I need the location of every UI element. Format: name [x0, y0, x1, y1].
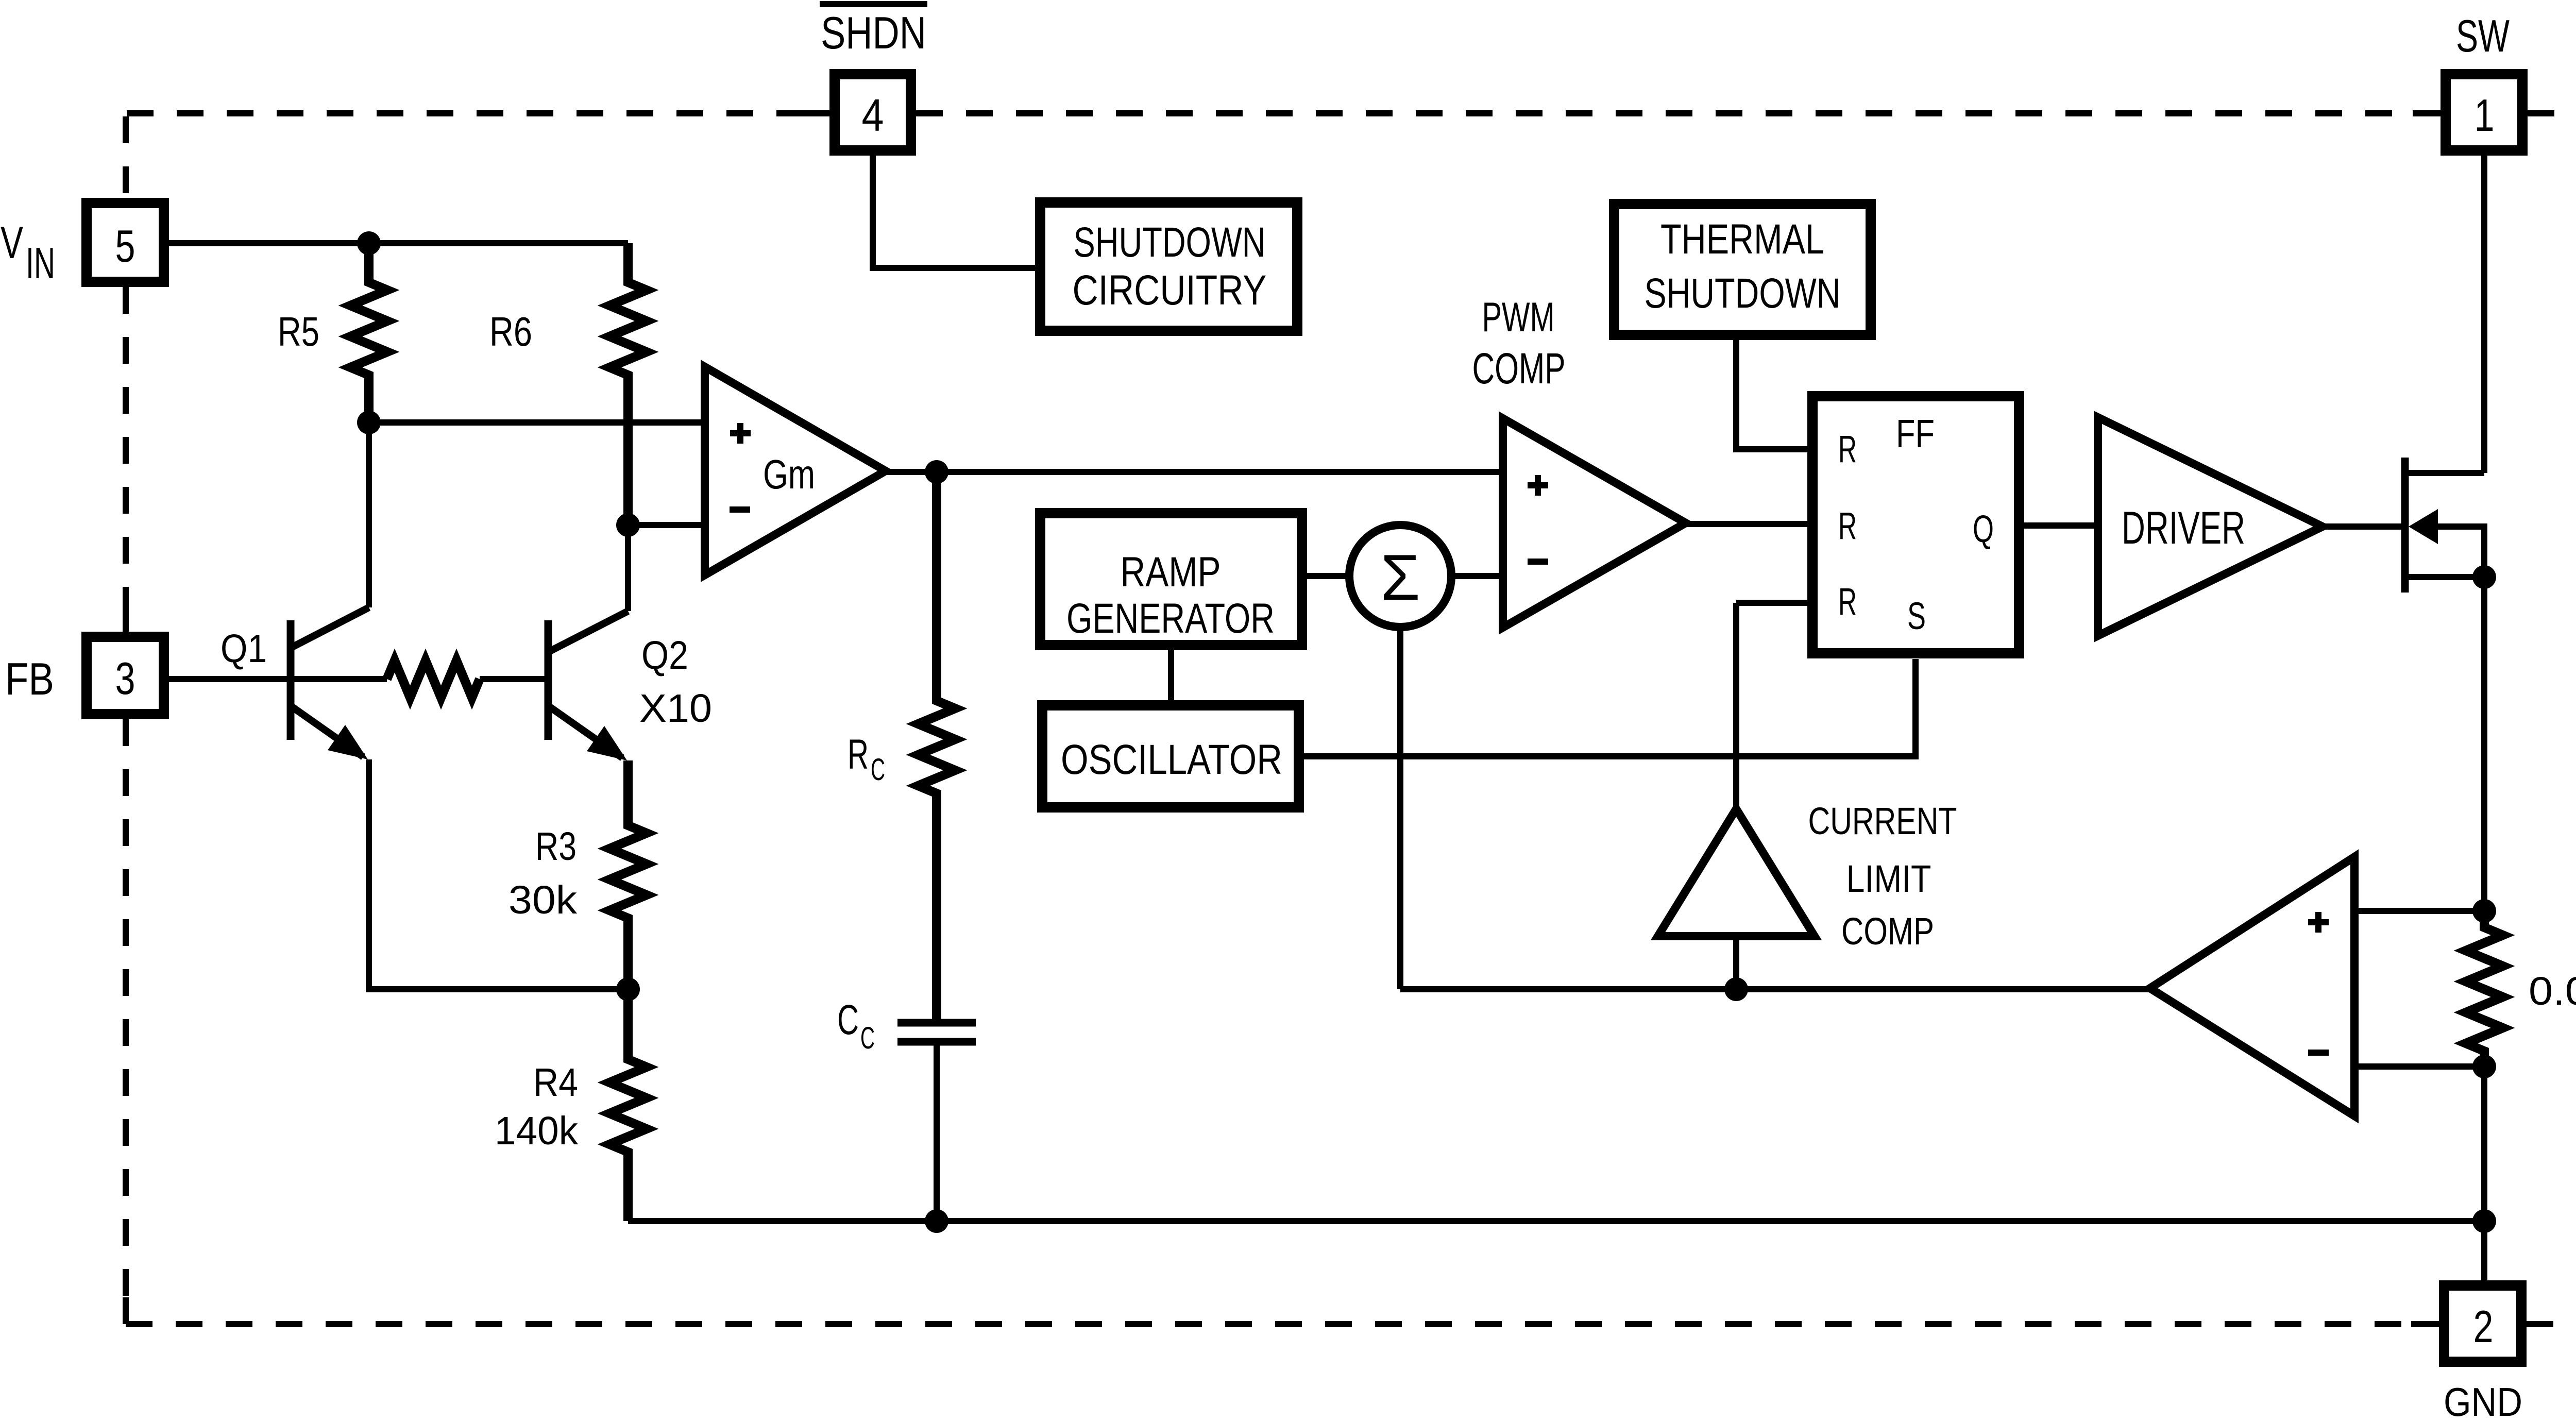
- svg-text:CIRCUITRY: CIRCUITRY: [1073, 267, 1267, 314]
- svg-text:C: C: [860, 1021, 875, 1055]
- DRIVER triangle: [2098, 417, 2323, 636]
- svg-text:LIMIT: LIMIT: [1846, 857, 1931, 900]
- wire pin5 to node A: [164, 240, 369, 246]
- wire MOSFET source down to sense resistor: [2481, 577, 2487, 911]
- svg-text:R: R: [1838, 504, 1857, 547]
- wire node B to Gm + input: [369, 419, 705, 426]
- resistor between Q1 and Q2 bases: [387, 661, 480, 698]
- pin 5 (VIN) box: [87, 203, 164, 282]
- svg-text:SHDN: SHDN: [821, 7, 926, 58]
- wire FB pin to Q1 base: [164, 676, 387, 682]
- node I junction dot (sense resistor top): [2472, 899, 2496, 923]
- svg-text:Gm: Gm: [763, 451, 815, 497]
- svg-text:SHUTDOWN: SHUTDOWN: [1074, 219, 1266, 266]
- svg-text:140k: 140k: [495, 1109, 578, 1153]
- wire PWM comp output to FF R middle: [1686, 521, 1807, 527]
- node G junction dot: [1724, 977, 1748, 1001]
- wire sense resistor to ground bus: [2481, 1067, 2487, 1221]
- svg-text:IN: IN: [26, 239, 55, 288]
- PWM plus sign: [1528, 475, 1548, 496]
- flip-flop FF box: [1812, 396, 2019, 653]
- resistor RC: [918, 472, 955, 1023]
- op-amp Gm triangle: [705, 367, 886, 575]
- svg-text:3: 3: [115, 653, 135, 704]
- wire summer down to current sense bus: [1397, 627, 1403, 989]
- svg-text:CURRENT: CURRENT: [1808, 800, 1957, 842]
- node A junction dot: [357, 231, 381, 255]
- IC boundary dashed border (top): [127, 110, 2576, 116]
- bottom ground bus wire: [628, 1218, 2484, 1224]
- svg-text:COMP: COMP: [1472, 344, 1566, 393]
- svg-text:R: R: [1838, 428, 1857, 470]
- svg-text:4: 4: [862, 90, 884, 141]
- wire node C down to Q2 collector: [625, 525, 631, 611]
- wire node B down to Q1 collector: [366, 422, 372, 607]
- wire FF Q output to driver: [2024, 522, 2098, 529]
- svg-text:C: C: [871, 752, 885, 787]
- svg-text:DRIVER: DRIVER: [2122, 502, 2245, 553]
- wire summer to PWM comp - input: [1451, 573, 1503, 579]
- node F junction dot (CC to ground bus): [925, 1209, 948, 1233]
- wire node A to R6 top: [369, 240, 628, 246]
- PWM minus sign: [1528, 559, 1548, 565]
- pin 1 (SW) box: [2446, 74, 2522, 150]
- node B junction dot: [357, 411, 381, 434]
- node D junction dot: [616, 977, 640, 1001]
- svg-text:COMP: COMP: [1841, 910, 1934, 953]
- sense minus sign: [2308, 1050, 2329, 1056]
- svg-text:0.05: 0.05: [2529, 969, 2576, 1013]
- wire driver to MOSFET gate: [2323, 523, 2401, 530]
- svg-text:1: 1: [2475, 90, 2495, 141]
- svg-text:Q1: Q1: [221, 627, 267, 671]
- node J junction dot (sense resistor bottom): [2472, 1055, 2496, 1078]
- resistor 0.05: [2466, 911, 2503, 1067]
- wire pin1 down to MOSFET drain: [2481, 150, 2487, 473]
- node H junction dot (MOSFET source): [2472, 565, 2496, 589]
- node K junction dot (ground bus): [2472, 1209, 2496, 1233]
- wire FF R bottom down to current limit comp output: [1733, 603, 1739, 809]
- wire thermal shutdown to FF R top: [1736, 340, 1807, 449]
- node C junction dot: [616, 513, 640, 537]
- svg-text:R3: R3: [535, 824, 577, 869]
- Gm plus sign: [730, 423, 751, 444]
- svg-text:FB: FB: [5, 653, 54, 704]
- svg-text:FF: FF: [1896, 412, 1935, 456]
- svg-text:R: R: [1838, 580, 1857, 623]
- wire pin4 to shutdown circuitry: [873, 150, 1035, 268]
- wire node C to Gm - input: [628, 522, 705, 528]
- RAMP GENERATOR box: [1040, 513, 1302, 645]
- THERMAL SHUTDOWN box: [1614, 204, 1871, 335]
- wire Gm output to PWM comp + input: [886, 469, 1503, 475]
- wire base resistor to Q2 base: [480, 676, 545, 682]
- svg-text:R: R: [848, 731, 869, 778]
- MOSFET Q3 power switch: [2405, 458, 2484, 593]
- svg-text:THERMAL: THERMAL: [1660, 216, 1824, 263]
- svg-text:OSCILLATOR: OSCILLATOR: [1061, 736, 1282, 783]
- SHUTDOWN CIRCUITRY box: [1040, 202, 1297, 331]
- wire sense - input: [2354, 1063, 2484, 1070]
- resistor R3 30k: [609, 760, 647, 989]
- svg-text:SW: SW: [2456, 10, 2510, 61]
- pin 3 (FB) box: [87, 637, 164, 714]
- OSCILLATOR box: [1042, 705, 1299, 807]
- svg-text:V: V: [1, 217, 23, 268]
- resistor R5: [350, 243, 387, 422]
- wire ramp generator to oscillator: [1168, 650, 1174, 700]
- svg-text:5: 5: [115, 221, 135, 272]
- wire Q1 emitter down and right to node D: [369, 759, 628, 989]
- wire current limit comp input down to bus: [1733, 936, 1739, 989]
- svg-text:RAMP: RAMP: [1121, 549, 1221, 596]
- wire ramp generator to summer: [1307, 573, 1349, 579]
- svg-text:R6: R6: [489, 309, 532, 354]
- pin 4 (SHDN) box: [835, 74, 911, 150]
- resistor R6: [609, 243, 647, 525]
- IC boundary dashed border (left): [123, 116, 129, 1324]
- comparator PWM COMP triangle: [1503, 418, 1686, 628]
- sense plus sign: [2308, 912, 2329, 933]
- svg-text:R5: R5: [278, 309, 319, 354]
- wire oscillator to FF S input: [1304, 659, 1916, 756]
- Gm minus sign: [730, 506, 750, 513]
- IC boundary dashed border (bottom): [126, 1321, 2576, 1327]
- pin 2 (GND) box: [2444, 1285, 2521, 1362]
- comparator current sense (pointing left): [2150, 857, 2354, 1116]
- wire sense + input: [2354, 908, 2484, 914]
- node E junction dot (COMP node): [925, 460, 948, 484]
- comparator CURRENT LIMIT COMP triangle (pointing up): [1658, 809, 1815, 936]
- summer circle: [1349, 525, 1451, 627]
- transistor Q1: [291, 607, 369, 759]
- svg-text:GND: GND: [2444, 1379, 2522, 1421]
- svg-text:S: S: [1907, 595, 1926, 637]
- svg-text:30k: 30k: [509, 878, 578, 922]
- wire ground bus to pin 2: [2481, 1221, 2487, 1285]
- svg-text:C: C: [837, 996, 859, 1043]
- svg-text:R4: R4: [533, 1060, 578, 1105]
- svg-text:2: 2: [2473, 1301, 2494, 1352]
- svg-text:Σ: Σ: [1381, 542, 1420, 614]
- svg-text:GENERATOR: GENERATOR: [1066, 595, 1275, 642]
- svg-text:Q: Q: [1973, 508, 1994, 550]
- svg-text:Q2: Q2: [641, 633, 688, 678]
- wire current limit comp to FF R bottom: [1736, 600, 1807, 606]
- capacitor CC: [897, 1023, 976, 1042]
- svg-text:SHUTDOWN: SHUTDOWN: [1645, 270, 1841, 317]
- svg-text:PWM: PWM: [1482, 294, 1555, 341]
- resistor R4 140k: [609, 989, 647, 1221]
- wire current sense bus: [1400, 986, 2150, 992]
- transistor Q2: [548, 611, 628, 760]
- svg-text:X10: X10: [639, 686, 712, 731]
